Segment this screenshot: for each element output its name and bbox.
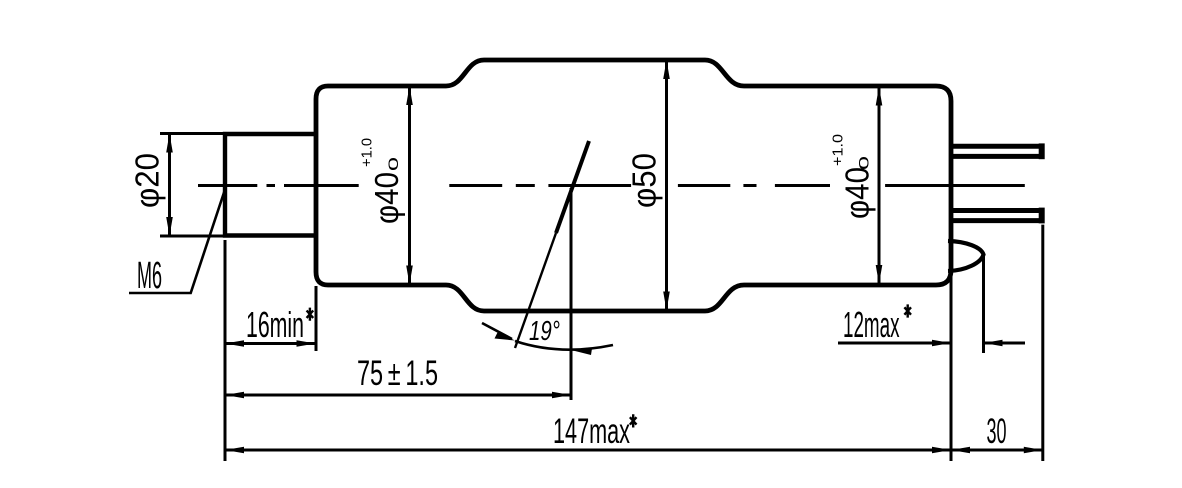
svg-text:φ50: φ50 (626, 153, 663, 208)
svg-text:φ40: φ40 (368, 172, 405, 224)
svg-text:M6: M6 (137, 255, 162, 297)
svg-text:φ20: φ20 (129, 153, 166, 208)
svg-text:19°: 19° (529, 315, 560, 346)
svg-text:75 ± 1.5: 75 ± 1.5 (357, 354, 438, 393)
svg-text:147max: 147max (553, 412, 630, 451)
svg-text:+1.0: +1.0 (359, 138, 376, 167)
svg-text:+1.0: +1.0 (830, 134, 847, 166)
svg-text:30: 30 (987, 412, 1007, 451)
svg-text:16min: 16min (246, 304, 304, 345)
svg-text:0: 0 (856, 156, 872, 170)
svg-text:12max: 12max (843, 304, 900, 345)
svg-text:φ40: φ40 (839, 167, 876, 219)
svg-text:0: 0 (385, 157, 401, 171)
